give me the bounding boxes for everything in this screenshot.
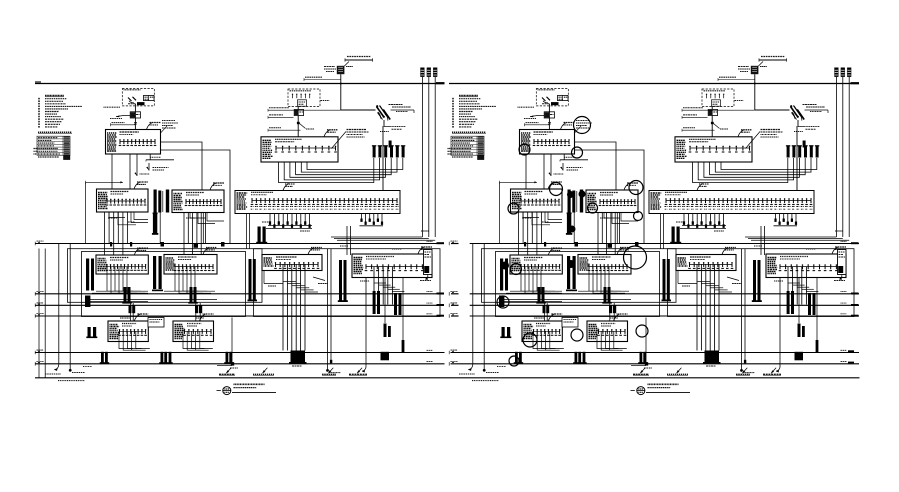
wire transformer to main switch B	[755, 109, 790, 111]
feeder comb below P1 B	[519, 212, 563, 255]
panel SD-A	[352, 247, 432, 278]
floor line right end labels B	[841, 241, 847, 361]
grounding electrode conductor label B	[525, 123, 550, 127]
feeder wire to P1 A	[86, 181, 123, 244]
feeder routing UP to conduit bank B	[693, 158, 817, 183]
panel designation labels bottom B	[472, 368, 781, 381]
service lateral label line A	[304, 77, 341, 81]
panel P2-A	[172, 183, 224, 213]
overhead service line A	[345, 57, 373, 62]
conduit turn to MSB B	[745, 237, 849, 240]
feeder comb below P2 B	[575, 213, 639, 255]
conduit stub pair below MSB left A	[256, 227, 267, 244]
riser with hook to label A	[362, 278, 391, 373]
meter for chain C A	[294, 110, 303, 116]
feeder to remote panel w/ arrow A	[146, 154, 174, 171]
feeder comb below SB B	[578, 267, 629, 321]
generator dashed enclosure B	[702, 89, 734, 107]
generator dashed enclosure A	[288, 89, 320, 107]
conduit bars left of SB B	[566, 256, 577, 291]
panel SB-A	[164, 248, 217, 275]
generator feeder drop A	[297, 107, 299, 138]
panel SA-B	[510, 248, 562, 274]
feeder comb below MSB right B	[774, 214, 798, 226]
feeder routing outline rect A A	[68, 249, 263, 303]
riser feeders mid B	[574, 213, 764, 256]
panel TB-A	[173, 314, 214, 342]
floor line right end labels A	[427, 241, 433, 361]
small junction box between TA TB B	[500, 318, 578, 339]
feeder to remote panel w/ arrow B	[560, 154, 588, 171]
panel F-B	[520, 123, 575, 155]
automatic transfer switch dashed enclosure A	[122, 89, 154, 106]
panel UP-A	[261, 130, 338, 162]
label lines left of chain C A	[268, 108, 341, 132]
feeder comb below SC B	[662, 249, 846, 370]
conduit bars left of SB A	[152, 256, 163, 291]
panel SC-B	[676, 248, 736, 271]
leader to note block B	[746, 130, 783, 149]
wire transformer to main switch A	[341, 109, 376, 111]
legend notes block B	[452, 96, 496, 134]
riser drop from F to panel P1 A	[129, 154, 131, 191]
utility transformer A	[324, 62, 353, 75]
panel P1-A	[97, 182, 149, 212]
panel designation labels bottom A	[58, 368, 367, 381]
feeder comb below SD A	[373, 267, 405, 361]
primary drop wire A	[340, 74, 342, 110]
left riser conduits A	[45, 244, 92, 375]
panel P1-B	[511, 182, 563, 212]
feeder comb below SA B	[506, 267, 562, 321]
conduit turn to MSB A	[331, 237, 435, 240]
feeder comb below P1 A	[105, 212, 149, 255]
floor line end labels A	[35, 241, 43, 366]
service lateral label line B	[718, 77, 755, 81]
floor line level 3	[35, 293, 437, 295]
utility meter cabinet A	[104, 95, 155, 107]
riser drop from F to panel P1 B	[543, 154, 545, 191]
panel TA-B	[522, 314, 562, 342]
feeder stubs third row A	[100, 318, 235, 366]
feeder comb below MSB A	[266, 214, 312, 229]
riser with hook to label B	[776, 278, 805, 373]
service conduit riser bars A	[420, 68, 437, 238]
conduit stubs left of SA A	[85, 259, 94, 308]
primary drop wire B	[754, 74, 756, 110]
feeder schedule table B	[448, 136, 485, 160]
service entrance wire A	[134, 104, 136, 130]
riser drop from F to panel P2 B	[550, 154, 552, 176]
riser feeders mid A	[160, 213, 350, 256]
conduit risers between P1 and P2 A	[152, 190, 169, 235]
main switchboard MSB B	[649, 184, 814, 214]
riser diagram title bubble B	[631, 384, 691, 394]
conduit risers between P1 and P2 B	[566, 190, 583, 235]
right edge riser cabinet A	[424, 250, 433, 280]
feeder routing outline rect B A	[82, 252, 246, 317]
utility meter cabinet B	[518, 95, 569, 107]
feeder F to MSB wire A	[161, 142, 203, 191]
revision circles right half	[497, 117, 648, 367]
junction node and leader chain C B	[711, 101, 744, 130]
floor line level 1	[35, 363, 445, 365]
panel UP-B	[675, 130, 752, 162]
junction node and leader chain C A	[297, 101, 330, 130]
feeder tag texts B	[522, 218, 843, 368]
labels right of panel F B	[575, 121, 593, 134]
feeder wire to P1 B	[500, 181, 537, 244]
feeder stubs third row B	[514, 318, 649, 366]
panel TA-A	[108, 314, 148, 342]
feeder routing outline rect C A	[254, 249, 441, 317]
grounding electrode conductor label A	[111, 123, 136, 127]
feeder routing outline rect A B	[482, 249, 677, 303]
panel SA-A	[96, 248, 148, 274]
generator feeder drop B	[711, 107, 713, 138]
legend notes block A	[38, 96, 82, 134]
group collector lines A	[86, 298, 218, 300]
overhead service line B	[759, 57, 787, 62]
conduit bank bars B	[786, 141, 819, 158]
conduit stub pair below MSB left B	[670, 227, 681, 244]
conduit bank bars A	[372, 141, 405, 158]
feeder schedule table A	[34, 136, 71, 160]
panel P2-B	[586, 183, 638, 213]
riser diagram title bubble A	[217, 384, 277, 394]
riser drop from F to panel P2 A	[136, 154, 138, 176]
service entrance wire B	[548, 104, 550, 130]
floor line level 1b	[35, 352, 445, 354]
feeder routing UP to conduit bank A	[279, 158, 403, 183]
main fused switch cluster A	[376, 105, 414, 191]
panel SC-A	[262, 248, 322, 271]
grade line	[35, 377, 860, 379]
junction dots right half	[501, 191, 586, 270]
feeder F to MSB wire B	[575, 142, 617, 191]
feeder comb below SD B	[787, 267, 819, 361]
feeder F lower wire B	[575, 150, 645, 244]
feeder comb below MSB B	[680, 214, 726, 229]
floor line level 2b	[35, 304, 437, 306]
left sheet edge risers	[38, 249, 40, 378]
utility transformer B	[738, 62, 767, 75]
meter M A	[110, 112, 141, 119]
main service bus line	[35, 83, 445, 85]
group collector lines B	[500, 298, 632, 300]
labels right of panel F A	[161, 121, 179, 134]
meter M B	[524, 112, 555, 119]
meter for chain C B	[708, 110, 717, 116]
main fused switch cluster B	[790, 105, 828, 191]
conduit stubs left of SA B	[499, 259, 508, 308]
service conduit riser bars B	[834, 68, 851, 238]
panel TB-B	[587, 314, 628, 342]
feeder comb below SB A	[164, 267, 215, 321]
feeder routing outline rect B B	[496, 252, 660, 317]
small junction box between TA TB A	[86, 318, 164, 339]
feeder F lower wire A	[161, 150, 231, 244]
feeder routing outline rect C B	[668, 249, 855, 317]
feeder comb below SC A	[248, 249, 432, 370]
label lines left of chain C B	[682, 108, 755, 132]
main switchboard MSB A	[235, 184, 400, 214]
panel F-A	[106, 123, 161, 155]
feeder comb below MSB right A	[360, 214, 384, 226]
feeder comb below SA A	[92, 267, 148, 321]
floor line level 2	[35, 315, 437, 317]
panel SD-B	[766, 247, 846, 278]
floor line level 4	[35, 243, 437, 245]
panel SB-B	[578, 248, 631, 275]
leader to note block A	[332, 130, 369, 149]
automatic transfer switch dashed enclosure B	[536, 89, 568, 106]
floor line end labels B	[449, 241, 457, 366]
left riser conduits B	[459, 244, 506, 375]
right edge riser cabinet B	[838, 250, 847, 280]
feeder comb below P2 A	[161, 213, 225, 255]
feeder tag texts A	[108, 218, 429, 368]
